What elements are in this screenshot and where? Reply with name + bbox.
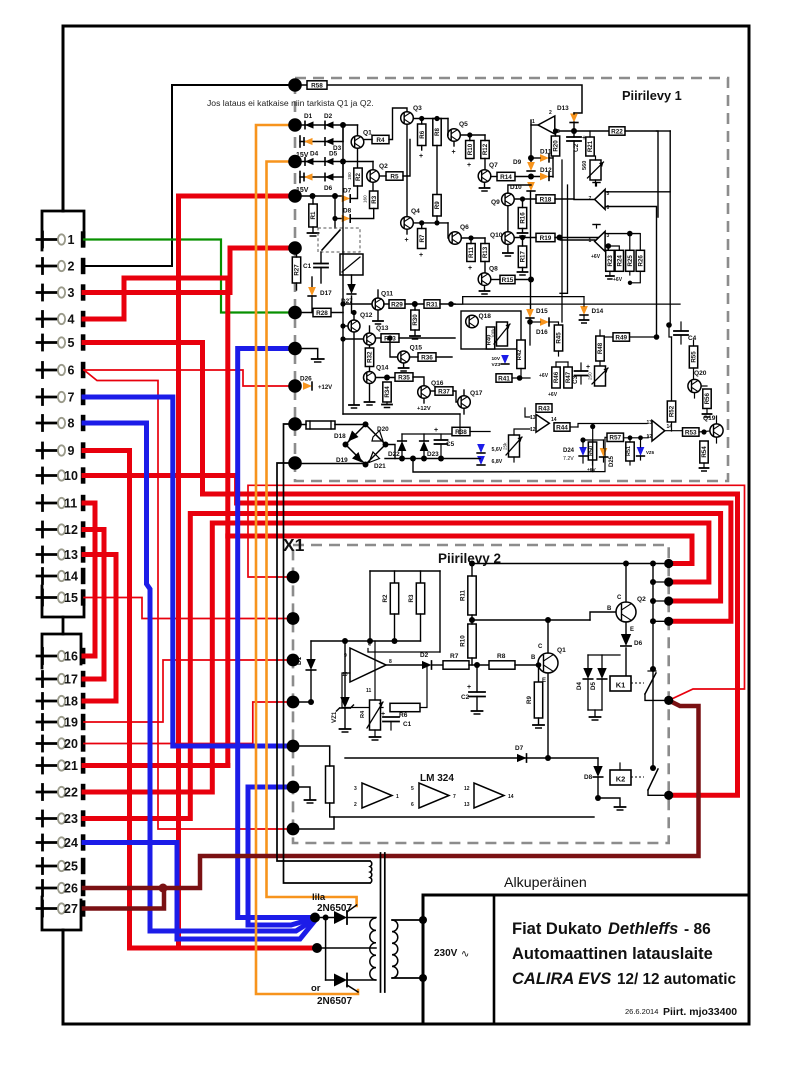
diode D1: [306, 659, 315, 670]
wire D12 out: [549, 176, 553, 178]
thyristor node 1: [310, 913, 320, 923]
wire U1e pin12 line: [514, 429, 530, 435]
svg-text:14: 14: [64, 569, 78, 583]
diode D4: [305, 158, 314, 165]
svg-text:LM 324: LM 324: [420, 773, 454, 784]
resistor R40: [486, 327, 494, 349]
svg-text:Q18: Q18: [479, 313, 492, 320]
wire D2 to R7: [432, 664, 444, 666]
wire vertical drop to C4: [669, 192, 671, 325]
svg-text:560: 560: [582, 161, 588, 170]
long vertical feed 1: [561, 160, 563, 322]
svg-text:+6V: +6V: [539, 373, 549, 379]
svg-text:Q2: Q2: [379, 163, 388, 170]
svg-text:C3: C3: [572, 375, 579, 384]
svg-text:Q2: Q2: [637, 596, 646, 603]
wire Q12 emitter: [353, 332, 355, 404]
resistor R26: [636, 250, 644, 271]
svg-text:R37: R37: [438, 388, 450, 395]
svg-text:R54: R54: [701, 446, 708, 458]
diode D16: [540, 318, 549, 326]
resistor R33: [381, 334, 399, 342]
wire R34 gnd: [386, 402, 388, 404]
wire Q1 emitter: [547, 673, 549, 758]
svg-text:R17: R17: [520, 251, 527, 263]
svg-text:+: +: [405, 237, 409, 244]
svg-text:VZ1: VZ1: [331, 711, 338, 723]
diode D26: [303, 382, 312, 390]
svg-text:13: 13: [530, 415, 536, 421]
svg-text:VZ6: VZ6: [646, 450, 655, 455]
resistor R51: [626, 442, 634, 461]
wire Q10 base: [514, 237, 536, 239]
wire bridge right to rail: [386, 445, 396, 459]
svg-text:6,8V: 6,8V: [492, 459, 503, 465]
diode D5: [597, 668, 606, 679]
X1 edge terminal node: [287, 654, 300, 667]
connector terminal 6: [41, 363, 44, 378]
svg-text:6: 6: [411, 802, 414, 808]
wire Q2 base to R5: [379, 175, 386, 177]
wire fuse leads: [295, 424, 306, 426]
svg-text:R53: R53: [685, 429, 697, 436]
wire terminal 22 red band4: [84, 523, 709, 792]
svg-text:Q6: Q6: [460, 224, 469, 231]
wire thyristor1 out: [347, 917, 376, 919]
svg-text:D6: D6: [634, 640, 643, 647]
rectifier bridge D18-D21: [346, 424, 386, 464]
svg-text:D11: D11: [540, 149, 552, 156]
wire R36 leads: [410, 356, 418, 358]
svg-text:Q19: Q19: [703, 415, 716, 422]
svg-text:D8: D8: [584, 774, 593, 781]
rail bridge output: [385, 458, 480, 460]
svg-text:+: +: [419, 252, 423, 259]
resistor R9: [534, 682, 542, 718]
diode D4: [583, 668, 592, 679]
wire terminal 26 dark red: [84, 700, 699, 888]
resistor R10: [466, 141, 474, 159]
connector terminal 10: [41, 468, 44, 483]
X1 edge terminal node: [287, 696, 300, 709]
wire Q14 emitter: [369, 384, 371, 401]
transistor Q18: [466, 315, 479, 328]
wire left drop: [369, 571, 371, 641]
op-amp U1b power stub: [596, 183, 598, 187]
resistor R41: [496, 374, 512, 382]
diode D2: [325, 121, 334, 128]
sub-circuit box Q18: [461, 311, 521, 349]
connector terminal 1: [41, 232, 44, 247]
svg-text:R22: R22: [611, 128, 623, 135]
wire R38 out: [470, 431, 490, 433]
svg-text:R36: R36: [421, 354, 433, 361]
svg-text:1: 1: [589, 238, 592, 244]
svg-text:Q14: Q14: [376, 365, 389, 372]
svg-text:+6V: +6V: [591, 254, 601, 260]
svg-text:R7: R7: [450, 653, 459, 660]
resistor R34: [383, 382, 391, 402]
diode D1: [305, 121, 314, 128]
trimmer P250: [595, 366, 606, 386]
wire R16: [522, 199, 524, 208]
resistor R3: [416, 583, 424, 614]
connector terminal 4: [41, 312, 44, 327]
wire U1c pin3 row: [606, 233, 640, 235]
wire x531 vertical upper: [530, 120, 532, 162]
node D5 output: [340, 159, 346, 165]
X1 right edge node: [664, 596, 673, 605]
wire C2 gnd: [476, 697, 478, 711]
wire pot25k bottom: [513, 457, 515, 462]
wire Q11 collector: [377, 290, 379, 298]
svg-text:10V: 10V: [492, 356, 501, 362]
wire Q8 emitter: [484, 286, 486, 291]
op-amp U1a: [538, 116, 555, 134]
wire D27 down: [351, 296, 353, 313]
wire Q11 base: [343, 303, 372, 305]
wire relay to D27: [351, 275, 353, 284]
svg-text:+12V: +12V: [318, 385, 332, 391]
svg-text:R4: R4: [360, 710, 366, 718]
diode VZ1: [304, 138, 313, 145]
X1 right edge node: [664, 617, 673, 626]
wire terminal 23 red band3: [84, 514, 721, 819]
wire R24 top: [608, 246, 619, 250]
wire R7 leads: [421, 223, 423, 229]
svg-text:17: 17: [64, 672, 78, 686]
transistor Q10: [502, 232, 515, 245]
diode D5: [325, 158, 334, 165]
relay K1 contact: [631, 682, 644, 684]
svg-text:13: 13: [464, 802, 470, 808]
svg-text:R51: R51: [626, 446, 632, 456]
resistor R6: [418, 124, 426, 146]
transistor Q9: [502, 193, 515, 206]
transistor Q1: [538, 653, 558, 673]
svg-text:19: 19: [64, 715, 78, 729]
op-amp U3c: [474, 783, 504, 808]
transistor Q7: [478, 170, 491, 183]
diode VZ3: [501, 355, 509, 364]
wire D6 to K1: [625, 648, 627, 676]
svg-text:Q1: Q1: [557, 647, 566, 654]
connector terminal 21: [41, 758, 44, 773]
svg-text:Q17: Q17: [470, 390, 483, 397]
wire Q2 emitter: [625, 622, 627, 634]
connector block 2 outline: [42, 634, 81, 668]
svg-text:D7: D7: [343, 188, 352, 195]
svg-text:R25: R25: [627, 255, 634, 267]
svg-text:R26: R26: [638, 255, 645, 267]
svg-text:C1: C1: [403, 721, 412, 728]
resistor R54: [700, 441, 708, 463]
connector terminal 17: [41, 672, 44, 687]
svg-text:D4: D4: [310, 151, 319, 158]
wire R11 R10 junction: [471, 564, 473, 577]
diode D7: [342, 195, 351, 202]
wire R54 bottom: [703, 463, 705, 467]
wire R25 top: [629, 234, 631, 251]
wire R53 to Q19: [699, 431, 710, 432]
svg-text:D1: D1: [304, 113, 313, 120]
diode VZ6: [637, 447, 645, 456]
wire R48 leads: [599, 330, 601, 336]
X1 right edge node: [664, 696, 673, 705]
resistor R8: [433, 119, 441, 146]
wire X1 787 gnd: [293, 787, 310, 799]
resistor R17: [518, 246, 526, 268]
wire R55 leads: [693, 340, 695, 346]
resistor R49: [613, 333, 630, 341]
svg-text:C: C: [538, 644, 543, 650]
transistor Q3: [401, 112, 414, 125]
connector terminal 2: [41, 259, 44, 274]
wire R4 to Q3: [389, 108, 407, 140]
resistor R45: [554, 325, 562, 351]
resistor R57: [607, 433, 624, 441]
svg-text:2N6507: 2N6507: [317, 996, 352, 1007]
svg-text:R24: R24: [617, 255, 624, 267]
connector terminal 25: [41, 859, 44, 874]
wire terminal 7 blue to X1: [84, 397, 293, 746]
wire blue terminal gnd: [295, 349, 318, 359]
svg-text:R23: R23: [607, 255, 614, 267]
svg-text:- 86: - 86: [684, 921, 711, 938]
connector terminal 9: [41, 443, 44, 458]
svg-text:K1: K1: [616, 681, 626, 690]
X1 right edge node: [664, 791, 673, 800]
svg-text:8: 8: [389, 659, 392, 665]
svg-text:D16: D16: [536, 329, 548, 336]
svg-text:D5: D5: [329, 151, 338, 158]
wire terminal row 196: [295, 195, 342, 197]
svg-text:D2: D2: [420, 652, 429, 659]
transistor Q2: [616, 602, 636, 622]
svg-text:C5: C5: [446, 441, 455, 448]
wire D1 D2 row: [295, 124, 358, 126]
svg-text:R20: R20: [553, 140, 560, 152]
wire D17 to R28 row: [311, 296, 313, 313]
svg-text:D23: D23: [427, 451, 439, 458]
svg-text:14: 14: [508, 794, 514, 800]
svg-text:7.2V: 7.2V: [563, 456, 574, 462]
wire thyristor2 out: [347, 979, 376, 981]
diode D2: [422, 661, 432, 669]
wire terminal 27 dark red: [84, 888, 164, 909]
wire blue board1 to transformer: [238, 349, 315, 918]
connector terminal 5: [41, 335, 44, 350]
wire Q13 emitter: [369, 345, 371, 348]
rail y131 to R22: [555, 130, 609, 132]
svg-text:R19: R19: [540, 235, 552, 242]
svg-text:R6: R6: [419, 130, 426, 138]
wire R58 net: [295, 84, 307, 86]
wire R13 to Q8: [484, 238, 486, 244]
capacitor C2: [567, 136, 581, 138]
svg-text:D20: D20: [377, 426, 389, 433]
wire Q5 out: [460, 134, 485, 136]
svg-text:26.6.2014: 26.6.2014: [625, 1007, 658, 1016]
resistor R56: [703, 389, 711, 409]
svg-text:Q8: Q8: [489, 266, 498, 273]
resistor R32: [365, 348, 373, 367]
svg-text:R55: R55: [691, 351, 698, 363]
X1 right edge node: [664, 577, 673, 586]
wire Q20 emitter: [694, 393, 696, 398]
wire orange board1 to thyristor 2: [256, 125, 358, 994]
connector terminal 7: [41, 390, 44, 405]
wire Q13 base: [340, 336, 345, 341]
board1 edge terminal node: [288, 417, 302, 431]
wire K2 top: [619, 763, 621, 770]
diode D7: [517, 754, 527, 762]
connector terminal 24: [41, 835, 44, 850]
svg-text:22: 22: [64, 785, 78, 799]
diode D24: [579, 447, 587, 456]
svg-text:R8: R8: [434, 127, 441, 135]
wire R26 leads: [639, 234, 641, 251]
svg-text:D5: D5: [590, 682, 597, 690]
Piirilevy 2 dashed board outline: [293, 545, 669, 843]
wire rail Q3: [413, 118, 448, 120]
svg-text:D26: D26: [300, 376, 312, 383]
svg-text:Q3: Q3: [413, 105, 422, 112]
op-amp U1f: [652, 420, 665, 441]
svg-text:D13: D13: [557, 105, 569, 112]
diode VZ4: [477, 444, 485, 453]
svg-text:+: +: [467, 162, 471, 169]
transistor Q8: [478, 273, 491, 286]
wire R11 top: [470, 238, 472, 244]
column x653: [652, 564, 654, 769]
wire R22 loop: [625, 131, 658, 217]
wire Q6 base: [447, 223, 449, 238]
diode D14: [580, 306, 588, 315]
connector terminal 23: [41, 811, 44, 826]
svg-text:+: +: [434, 427, 438, 434]
relay WR1: [340, 254, 363, 275]
svg-text:Jos lataus ei katkaise niin ta: Jos lataus ei katkaise niin tarkista Q1 …: [207, 98, 374, 108]
X1 edge terminal node: [287, 740, 300, 753]
svg-text:R45: R45: [556, 332, 563, 344]
transistor Q20: [688, 379, 701, 392]
wire top link: [402, 433, 452, 435]
svg-text:11: 11: [64, 496, 77, 510]
resistor R12: [481, 141, 489, 159]
wire R9 bottom: [436, 216, 438, 223]
wire R49 leads: [605, 336, 613, 338]
wire D1 branch: [310, 641, 312, 659]
wire opamp minus: [342, 673, 383, 708]
svg-text:Alkuperäinen: Alkuperäinen: [504, 875, 587, 891]
resistor R50: [588, 442, 596, 460]
wire opamp1 out: [531, 124, 538, 126]
wire Q8 base: [491, 279, 500, 281]
diode D17: [308, 287, 316, 296]
capacitor C5: [435, 439, 448, 441]
wire R6 leads: [421, 119, 423, 125]
svg-text:Q16: Q16: [431, 380, 444, 387]
wire left resistor leads: [293, 746, 330, 766]
diode D3: [325, 138, 334, 145]
wire terminal 2 to board1 black: [84, 85, 295, 266]
svg-text:D12: D12: [540, 167, 552, 174]
svg-text:1: 1: [68, 233, 75, 247]
svg-text:R3: R3: [371, 195, 378, 203]
transistor Q16: [418, 386, 431, 399]
svg-text:+: +: [468, 265, 472, 272]
diode D23: [420, 441, 429, 451]
resistor R16: [518, 208, 526, 229]
wire R18 out: [555, 198, 574, 200]
svg-text:CALIRA EVS: CALIRA EVS: [512, 970, 611, 988]
svg-text:B: B: [531, 655, 536, 661]
svg-text:Q10: Q10: [490, 232, 503, 239]
svg-text:10: 10: [64, 469, 78, 483]
svg-text:6: 6: [68, 363, 75, 377]
resistor R24: [615, 250, 623, 271]
board1 edge terminal node: [288, 155, 302, 169]
connector terminal 3: [41, 285, 44, 300]
wire Q10 emitter: [507, 244, 509, 252]
capacitor C1: [383, 716, 399, 718]
capacitor C4: [674, 330, 688, 332]
svg-text:C2: C2: [461, 694, 470, 701]
resistor R28: [313, 308, 331, 316]
connector terminal 26: [41, 881, 44, 896]
svg-text:R38: R38: [455, 429, 467, 436]
connector terminal 18: [41, 694, 44, 709]
mesh rail y296: [451, 297, 463, 305]
wire Q7 base to R14: [491, 176, 497, 178]
diode VZ2: [304, 173, 313, 180]
left border stem between connector blocks: [62, 617, 65, 634]
svg-text:D25: D25: [609, 455, 615, 467]
wire D8 branch: [335, 196, 342, 219]
svg-text:R30: R30: [412, 314, 419, 326]
wire tap: [317, 947, 376, 949]
transistor Q1: [351, 136, 364, 149]
svg-text:D17: D17: [320, 290, 332, 297]
resistor R5: [386, 172, 403, 180]
diode D11: [540, 154, 549, 162]
svg-text:7: 7: [453, 794, 456, 800]
wire C1 bottom: [320, 268, 322, 284]
wire D16 row: [530, 321, 540, 323]
resistor R4: [372, 135, 389, 143]
svg-text:18: 18: [64, 694, 78, 708]
svg-text:2: 2: [549, 110, 552, 116]
svg-text:D4: D4: [576, 682, 583, 690]
svg-text:R10: R10: [460, 635, 467, 647]
svg-text:25k: 25k: [503, 442, 508, 450]
resistor R11: [467, 244, 475, 262]
op-amp U1c: [595, 231, 606, 251]
transistor Q15: [398, 351, 410, 363]
wire Q4 base row: [413, 222, 448, 224]
relay K1: [610, 676, 631, 691]
connector terminal 13: [41, 547, 44, 562]
wire D7 rail: [345, 757, 598, 759]
svg-text:21: 21: [64, 759, 78, 773]
svg-text:12/ 12 automatic: 12/ 12 automatic: [617, 971, 737, 988]
mesh rail y304: [455, 303, 680, 305]
svg-text:D18: D18: [334, 433, 346, 440]
diode VZ5: [477, 456, 485, 465]
svg-text:24: 24: [64, 836, 78, 850]
wire R19 out: [555, 237, 601, 239]
